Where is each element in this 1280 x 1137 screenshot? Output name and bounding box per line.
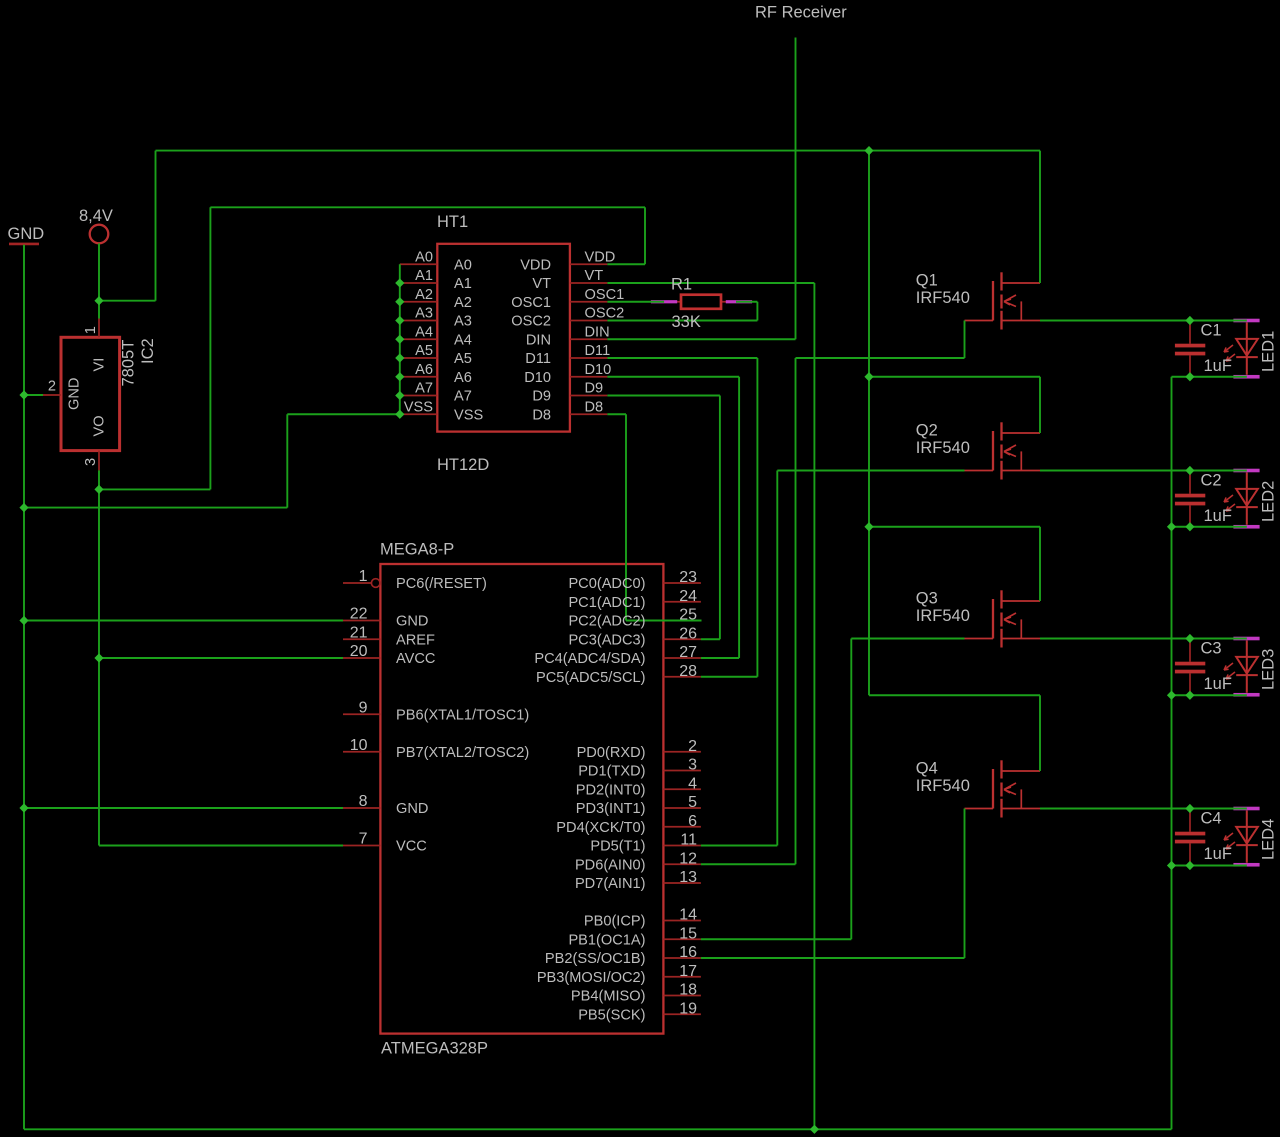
svg-text:PC3(ADC3): PC3(ADC3) bbox=[568, 632, 645, 648]
IC1 pin 9 lead bbox=[343, 713, 380, 715]
svg-text:A0: A0 bbox=[415, 249, 433, 265]
svg-text:A3: A3 bbox=[415, 306, 433, 322]
svg-text:Q3: Q3 bbox=[916, 590, 938, 608]
wire IC1 pin 15 to Q3 gate bbox=[701, 639, 965, 940]
wire IC2 VO rail bbox=[98, 470, 100, 845]
svg-text:GND: GND bbox=[67, 378, 83, 410]
svg-text:33K: 33K bbox=[672, 313, 701, 331]
svg-text:A1: A1 bbox=[415, 268, 433, 284]
svg-text:A5: A5 bbox=[415, 343, 433, 359]
wire to Q1 drain bbox=[1039, 151, 1041, 283]
IC1 pin 3 lead bbox=[663, 770, 701, 772]
svg-text:PD2(INT0): PD2(INT0) bbox=[576, 782, 646, 798]
svg-text:3: 3 bbox=[688, 757, 697, 774]
svg-text:R1: R1 bbox=[671, 276, 692, 294]
svg-text:4: 4 bbox=[688, 775, 697, 792]
svg-text:1: 1 bbox=[359, 568, 368, 585]
wire to Q3 drain bbox=[869, 527, 1040, 601]
HT1 pin D9 lead bbox=[570, 395, 608, 397]
IC1 pin 11 lead bbox=[663, 845, 701, 847]
svg-text:Q4: Q4 bbox=[916, 760, 938, 778]
svg-text:IRF540: IRF540 bbox=[916, 289, 970, 307]
svg-text:VDD: VDD bbox=[585, 249, 616, 265]
capacitor C1 bbox=[1175, 322, 1205, 376]
wire VCC to IC1 AVCC pin 20 bbox=[99, 657, 343, 659]
svg-text:1uF: 1uF bbox=[1204, 357, 1232, 375]
svg-text:D9: D9 bbox=[585, 381, 604, 397]
junction VCC / IC2 VO bbox=[94, 485, 103, 494]
svg-text:7: 7 bbox=[359, 831, 368, 848]
svg-text:VO: VO bbox=[91, 415, 107, 436]
svg-text:OSC1: OSC1 bbox=[511, 295, 551, 311]
wire GND rail right bbox=[1171, 377, 1173, 1130]
LED LED1 bbox=[1224, 319, 1260, 379]
svg-text:A7: A7 bbox=[415, 381, 433, 397]
capacitor C3 bbox=[1175, 640, 1205, 694]
svg-text:PC2(ADC2): PC2(ADC2) bbox=[568, 614, 645, 630]
svg-text:MEGA8-P: MEGA8-P bbox=[380, 541, 454, 559]
wire HT1 D9 to IC1 pin 26 bbox=[607, 396, 720, 640]
wire HT1 VT to GND bottom bbox=[607, 283, 814, 1129]
svg-text:A2: A2 bbox=[454, 295, 472, 311]
svg-text:PC1(ADC1): PC1(ADC1) bbox=[568, 595, 645, 611]
svg-text:12: 12 bbox=[679, 850, 697, 867]
svg-text:LED3: LED3 bbox=[1260, 649, 1278, 690]
svg-text:VSS: VSS bbox=[454, 407, 483, 423]
svg-text:PB1(OC1A): PB1(OC1A) bbox=[568, 932, 645, 948]
junction GND rail / C3 bottom bbox=[1167, 691, 1176, 700]
microcontroller MEGA8-P ATMEGA328P box bbox=[380, 564, 663, 1034]
wire supply node to top rail bbox=[99, 151, 156, 301]
svg-text:C3: C3 bbox=[1201, 640, 1222, 658]
capacitor C2 bbox=[1175, 472, 1205, 526]
svg-text:18: 18 bbox=[679, 982, 697, 999]
HT1 pin VDD lead bbox=[570, 263, 608, 265]
IC1 pin 16 lead bbox=[663, 957, 701, 959]
wire GND to IC1 pin 22 bbox=[24, 620, 343, 622]
wire GND to C4 LED4 bottom bbox=[1172, 865, 1247, 867]
svg-text:PC5(ADC5/SCL): PC5(ADC5/SCL) bbox=[536, 670, 645, 686]
HT1 pin VSS lead bbox=[400, 413, 438, 415]
svg-text:VI: VI bbox=[91, 358, 107, 372]
svg-text:27: 27 bbox=[679, 644, 697, 661]
junction A6 bbox=[395, 372, 404, 381]
svg-text:8,4V: 8,4V bbox=[79, 207, 113, 225]
svg-text:7805T: 7805T bbox=[120, 340, 138, 387]
svg-text:DIN: DIN bbox=[526, 332, 551, 348]
svg-text:PD5(T1): PD5(T1) bbox=[590, 839, 645, 855]
wire Q4 source to C4 LED4 bbox=[1040, 808, 1247, 810]
svg-text:11: 11 bbox=[680, 832, 697, 849]
junction VT / GND bottom bbox=[810, 1125, 819, 1134]
junction GND / IC1 pin22 bbox=[19, 616, 28, 625]
junction drain rail / Q2 bbox=[864, 372, 873, 381]
HT1 pin D11 lead bbox=[570, 357, 608, 359]
wire HT1 D10 to IC1 pin 27 bbox=[607, 377, 739, 658]
svg-text:PB3(MOSI/OC2): PB3(MOSI/OC2) bbox=[537, 970, 646, 986]
svg-text:VT: VT bbox=[585, 268, 604, 284]
IC1 pin 13 lead bbox=[663, 882, 701, 884]
junction supply 8,4V node bbox=[94, 296, 103, 305]
IC1 pin 24 lead bbox=[663, 601, 701, 603]
svg-text:19: 19 bbox=[679, 1000, 697, 1017]
svg-text:A4: A4 bbox=[454, 332, 472, 348]
svg-text:PD1(TXD): PD1(TXD) bbox=[578, 764, 645, 780]
IC1 pin 10 lead bbox=[343, 751, 380, 753]
wire HT1 D11 to IC1 pin 28 bbox=[607, 358, 757, 677]
svg-text:1uF: 1uF bbox=[1204, 507, 1232, 525]
IC1 pin 25 lead bbox=[663, 620, 701, 622]
IC1 pin 27 lead bbox=[663, 657, 701, 659]
wire VCC to IC1 VCC pin 7 bbox=[99, 845, 343, 847]
svg-text:15: 15 bbox=[679, 925, 697, 942]
junction C1 top bbox=[1185, 316, 1194, 325]
svg-text:9: 9 bbox=[359, 699, 368, 716]
svg-text:A6: A6 bbox=[454, 370, 472, 386]
junction GND / IC1 pin8 bbox=[19, 803, 28, 812]
svg-text:D8: D8 bbox=[532, 407, 551, 423]
junction drain rail / Q3 bbox=[864, 522, 873, 531]
svg-text:PC0(ADC0): PC0(ADC0) bbox=[568, 576, 645, 592]
IC2 pin 1 lead bbox=[98, 319, 100, 338]
wire +8,4V top rail bbox=[156, 150, 1041, 152]
HT1 pin DIN lead bbox=[570, 338, 608, 340]
svg-text:C2: C2 bbox=[1201, 472, 1222, 490]
IC1 pin 8 lead bbox=[343, 807, 380, 809]
svg-text:14: 14 bbox=[679, 907, 697, 924]
svg-text:A1: A1 bbox=[454, 276, 472, 292]
junction top rail / drain rail bbox=[864, 146, 873, 155]
svg-text:13: 13 bbox=[679, 869, 697, 886]
svg-text:PB2(SS/OC1B): PB2(SS/OC1B) bbox=[545, 951, 646, 967]
junction A3 bbox=[395, 316, 404, 325]
HT1 pin OSC1 lead bbox=[570, 301, 608, 303]
IC1 pin 6 lead bbox=[663, 826, 701, 828]
svg-text:10: 10 bbox=[350, 737, 368, 754]
svg-text:AVCC: AVCC bbox=[396, 651, 435, 667]
wire GND to IC2 pin 2 bbox=[24, 394, 43, 396]
LED LED3 bbox=[1224, 637, 1260, 697]
IC1 pin 23 lead bbox=[663, 582, 701, 584]
svg-text:A5: A5 bbox=[454, 351, 472, 367]
svg-text:PB5(SCK): PB5(SCK) bbox=[578, 1007, 645, 1023]
svg-text:A7: A7 bbox=[454, 389, 472, 405]
IC1 pin 1 lead bbox=[343, 582, 371, 584]
LED LED4 bbox=[1224, 807, 1260, 867]
svg-text:PB0(ICP): PB0(ICP) bbox=[584, 914, 646, 930]
svg-text:28: 28 bbox=[679, 663, 697, 680]
HT1 pin OSC2 lead bbox=[570, 320, 608, 322]
svg-text:3: 3 bbox=[83, 458, 99, 466]
IC1 pin 19 lead bbox=[663, 1013, 701, 1015]
svg-text:20: 20 bbox=[350, 643, 368, 660]
IC1 pin 12 lead bbox=[663, 863, 701, 865]
svg-text:PD6(AIN0): PD6(AIN0) bbox=[575, 857, 646, 873]
junction GND rail / C2 bottom bbox=[1167, 522, 1176, 531]
svg-text:A0: A0 bbox=[454, 257, 472, 273]
svg-text:1uF: 1uF bbox=[1204, 675, 1232, 693]
transistor Q3 IRF540 bbox=[965, 590, 1041, 647]
HT1 pin A7 lead bbox=[400, 395, 438, 397]
IC2 pin 2 lead bbox=[43, 394, 61, 396]
junction C3 top bbox=[1185, 634, 1194, 643]
wire supply to IC2 pin 1 bbox=[98, 243, 100, 318]
svg-text:1uF: 1uF bbox=[1204, 845, 1232, 863]
transistor Q2 IRF540 bbox=[965, 422, 1041, 479]
IC2 pin texts and name bbox=[67, 338, 158, 436]
wire HT1 OSC2 to R1 bbox=[607, 302, 757, 321]
IC1 pin 7 lead bbox=[343, 845, 380, 847]
svg-text:PD7(AIN1): PD7(AIN1) bbox=[575, 876, 646, 892]
svg-text:16: 16 bbox=[679, 944, 697, 961]
wire IC1 pin 12 to Q1 gate bbox=[701, 321, 965, 865]
wire HT1 OSC1 to R1 bbox=[607, 301, 664, 303]
HT1 pin A3 lead bbox=[400, 320, 438, 322]
junction VCC / AVCC bbox=[94, 653, 103, 662]
svg-text:D10: D10 bbox=[524, 370, 551, 386]
svg-text:LED2: LED2 bbox=[1260, 481, 1278, 522]
svg-text:8: 8 bbox=[359, 793, 368, 810]
IC1 pin 26 lead bbox=[663, 638, 701, 640]
svg-text:25: 25 bbox=[679, 607, 697, 624]
svg-text:HT1: HT1 bbox=[437, 213, 468, 231]
junction C4 top bbox=[1185, 804, 1194, 813]
svg-text:OSC2: OSC2 bbox=[585, 306, 625, 322]
wire GND to HT1 VSS bbox=[24, 414, 400, 507]
svg-text:GND: GND bbox=[396, 801, 428, 817]
svg-text:PD3(INT1): PD3(INT1) bbox=[576, 801, 646, 817]
svg-text:17: 17 bbox=[679, 963, 697, 980]
wire HT1 D8 to IC1 pin 25 bbox=[607, 414, 701, 620]
svg-text:VCC: VCC bbox=[396, 839, 427, 855]
HT1 pin D10 lead bbox=[570, 376, 608, 378]
HT1 pin A1 lead bbox=[400, 282, 438, 284]
svg-text:C1: C1 bbox=[1201, 322, 1222, 340]
supply +8,4V bbox=[90, 225, 109, 244]
HT1 pin A0 lead bbox=[400, 263, 438, 265]
svg-text:D11: D11 bbox=[585, 343, 611, 359]
svg-text:21: 21 bbox=[350, 624, 368, 641]
IC1 pin 1 inverted-reset circle bbox=[371, 579, 380, 588]
svg-text:LED4: LED4 bbox=[1260, 819, 1278, 860]
svg-text:Q2: Q2 bbox=[916, 422, 938, 440]
wire GND to C3 LED3 bottom bbox=[1172, 694, 1247, 696]
svg-text:LED1: LED1 bbox=[1260, 331, 1278, 372]
svg-text:A3: A3 bbox=[454, 314, 472, 330]
IC1 pin 2 lead bbox=[663, 751, 701, 753]
wire GND to IC1 pin 8 bbox=[24, 807, 343, 809]
svg-text:DIN: DIN bbox=[585, 324, 610, 340]
IC1 pin 21 lead bbox=[343, 638, 380, 640]
IC1 pin 18 lead bbox=[663, 995, 701, 997]
svg-text:PB6(XTAL1/TOSC1): PB6(XTAL1/TOSC1) bbox=[396, 707, 529, 723]
junction A5 bbox=[395, 353, 404, 362]
svg-text:A4: A4 bbox=[415, 324, 433, 340]
svg-text:IRF540: IRF540 bbox=[916, 777, 970, 795]
capacitor C4 bbox=[1175, 810, 1205, 864]
svg-text:PC4(ADC4/SDA): PC4(ADC4/SDA) bbox=[534, 651, 645, 667]
svg-text:6: 6 bbox=[688, 813, 697, 830]
IC2 pin 3 lead bbox=[98, 451, 100, 471]
svg-text:D8: D8 bbox=[585, 399, 604, 415]
svg-text:22: 22 bbox=[350, 606, 368, 623]
svg-text:2: 2 bbox=[48, 378, 56, 394]
svg-text:IRF540: IRF540 bbox=[916, 607, 970, 625]
svg-text:A6: A6 bbox=[415, 362, 433, 378]
svg-text:ATMEGA328P: ATMEGA328P bbox=[381, 1039, 488, 1057]
svg-text:RF Receiver: RF Receiver bbox=[755, 4, 847, 22]
svg-text:GND: GND bbox=[396, 614, 428, 630]
svg-text:PC6(/RESET): PC6(/RESET) bbox=[396, 576, 487, 592]
svg-text:26: 26 bbox=[679, 625, 697, 642]
junction GND rail / C4 bottom bbox=[1167, 861, 1176, 870]
HT1 pin A4 lead bbox=[400, 338, 438, 340]
wire Q3 source to C3 LED3 bbox=[1040, 638, 1247, 640]
svg-text:2: 2 bbox=[688, 738, 697, 755]
svg-text:Q1: Q1 bbox=[916, 272, 938, 290]
wire IC1 pin 11 to Q2 gate bbox=[701, 471, 965, 846]
svg-text:C4: C4 bbox=[1201, 810, 1222, 828]
resistor R1 bbox=[651, 295, 752, 309]
transistor Q1 IRF540 bbox=[965, 272, 1041, 329]
HT1 pin D8 lead bbox=[570, 413, 608, 415]
junction VSS bbox=[395, 410, 404, 419]
junction A7 bbox=[395, 391, 404, 400]
svg-text:PD0(RXD): PD0(RXD) bbox=[577, 745, 646, 761]
IC1 pin 4 lead bbox=[663, 788, 701, 790]
svg-text:IRF540: IRF540 bbox=[916, 439, 970, 457]
svg-text:1: 1 bbox=[83, 326, 99, 334]
IC1 pin 28 lead bbox=[663, 676, 701, 678]
HT1 pin VT lead bbox=[570, 282, 608, 284]
wire RF Receiver to HT1 DIN bbox=[607, 38, 795, 340]
wire to Q2 drain bbox=[869, 377, 1040, 433]
HT1 pin A2 lead bbox=[400, 301, 438, 303]
IC1 pin 5 lead bbox=[663, 807, 701, 809]
ground bbox=[9, 243, 39, 246]
junction C1 bottom bbox=[1185, 372, 1194, 381]
svg-text:PD4(XCK/T0): PD4(XCK/T0) bbox=[556, 820, 645, 836]
svg-text:VDD: VDD bbox=[520, 257, 551, 273]
svg-text:D11: D11 bbox=[525, 351, 551, 367]
junction A1 bbox=[395, 278, 404, 287]
LED LED2 bbox=[1224, 469, 1260, 529]
wire Q1 source to C1 LED1 bbox=[1040, 320, 1247, 322]
IC1 pin 22 lead bbox=[343, 620, 380, 622]
IC1 pin 14 lead bbox=[663, 920, 701, 922]
HT1 pin A6 lead bbox=[400, 376, 438, 378]
junction C2 top bbox=[1185, 466, 1194, 475]
junction A2 bbox=[395, 297, 404, 306]
svg-text:D10: D10 bbox=[585, 362, 612, 378]
wire GND to C2 LED2 bottom bbox=[1172, 526, 1247, 528]
svg-text:D9: D9 bbox=[532, 389, 551, 405]
svg-text:23: 23 bbox=[679, 569, 697, 586]
junction A4 bbox=[395, 335, 404, 344]
svg-text:OSC2: OSC2 bbox=[511, 314, 551, 330]
svg-text:VSS: VSS bbox=[404, 399, 433, 415]
transistor Q4 IRF540 bbox=[965, 760, 1041, 817]
svg-text:OSC1: OSC1 bbox=[585, 287, 625, 303]
svg-text:PB4(MISO): PB4(MISO) bbox=[571, 989, 646, 1005]
wire IC1 pin 16 to Q4 gate bbox=[701, 809, 965, 959]
HT1 pin A5 lead bbox=[400, 357, 438, 359]
svg-text:VT: VT bbox=[532, 276, 551, 292]
wire GND to C1 LED1 bottom bbox=[1172, 376, 1247, 378]
wire +8,4V drain rail bbox=[868, 151, 870, 696]
IC1 pin 15 lead bbox=[663, 938, 701, 940]
svg-text:AREF: AREF bbox=[396, 632, 435, 648]
svg-text:PB7(XTAL2/TOSC2): PB7(XTAL2/TOSC2) bbox=[396, 745, 529, 761]
wire HT1 address bus A0-VSS bbox=[399, 264, 401, 414]
junction GND / VSS branch bbox=[19, 503, 28, 512]
svg-text:GND: GND bbox=[8, 225, 45, 243]
junction C3 bottom bbox=[1185, 691, 1194, 700]
IC1 pin 20 lead bbox=[343, 657, 380, 659]
svg-text:IC2: IC2 bbox=[139, 338, 157, 364]
wire VCC to HT1 VDD bbox=[99, 207, 645, 489]
wire GND bottom bbox=[24, 1128, 1172, 1130]
regulator IC2 7805T bbox=[61, 337, 120, 450]
svg-text:HT12D: HT12D bbox=[437, 456, 489, 474]
IC1 pin 17 lead bbox=[663, 976, 701, 978]
junction GND / IC2 pin2 bbox=[19, 390, 28, 399]
wire GND rail left bbox=[23, 245, 25, 1130]
wire Q2 source to C2 LED2 bbox=[1040, 470, 1247, 472]
svg-text:A2: A2 bbox=[415, 287, 433, 303]
junction C4 bottom bbox=[1185, 861, 1194, 870]
decoder HT1 HT12D box bbox=[437, 244, 570, 432]
junction C2 bottom bbox=[1185, 522, 1194, 531]
svg-text:5: 5 bbox=[688, 794, 697, 811]
wire to Q4 drain bbox=[869, 695, 1040, 771]
svg-text:24: 24 bbox=[679, 588, 697, 605]
